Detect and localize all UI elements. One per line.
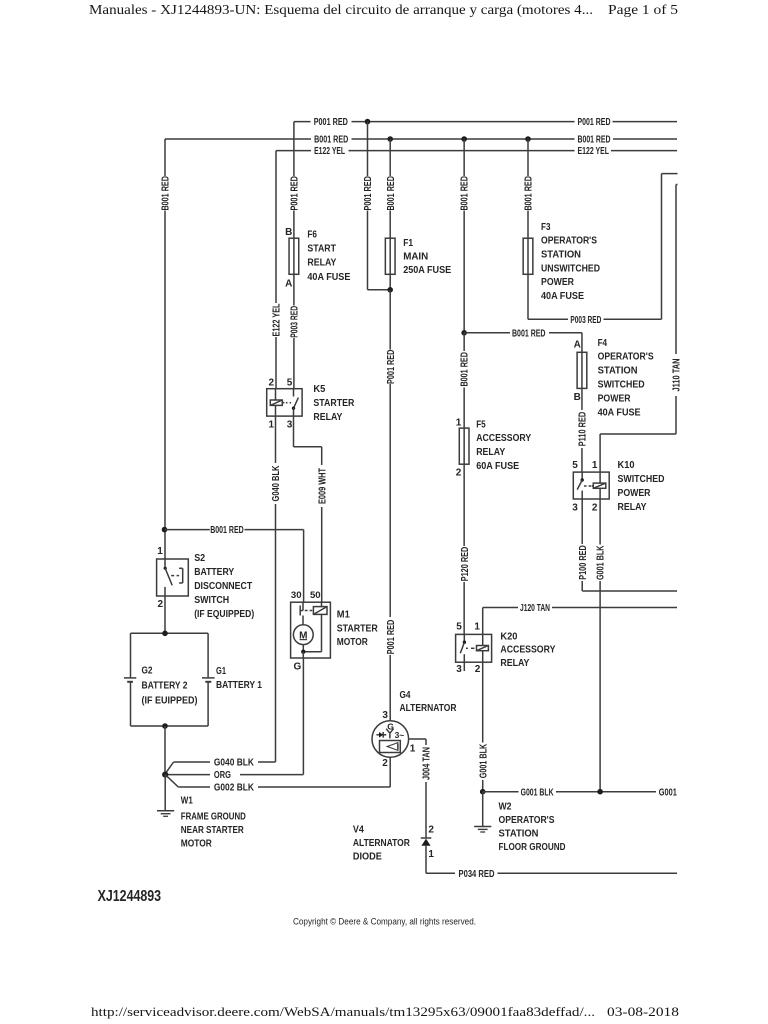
battery G2 symbol	[124, 677, 136, 679]
battery loop box	[131, 632, 209, 634]
wire G040 BLK from K5 pin 1 to frame ground junction	[275, 416, 277, 463]
svg-text:F5: F5	[476, 419, 486, 430]
svg-text:ACCESSORY: ACCESSORY	[476, 433, 531, 444]
svg-text:NEAR STARTER: NEAR STARTER	[181, 825, 244, 836]
svg-text:P003 RED: P003 RED	[570, 315, 601, 326]
svg-text:(IF EUIPPED): (IF EUIPPED)	[142, 695, 198, 706]
fuse F1 MAIN 250A FUSE	[385, 238, 395, 274]
wire P100 RED from K10 pin 3 to right edge	[581, 499, 583, 544]
G4 regulator symbol	[380, 741, 401, 753]
wire P001 RED long vertical to alternator	[389, 290, 391, 350]
svg-text:50: 50	[310, 590, 321, 601]
svg-text:P034 RED: P034 RED	[459, 869, 495, 880]
K20 pin 3 stub	[463, 662, 465, 671]
svg-text:G4: G4	[400, 690, 411, 701]
svg-text:B001 RED: B001 RED	[524, 176, 535, 211]
K10 switch contact	[581, 472, 583, 480]
battery G1 symbol	[202, 677, 215, 679]
M1 solenoid contact	[302, 602, 304, 610]
wire elbow into junction below F1	[368, 289, 391, 291]
svg-text:FRAME GROUND: FRAME GROUND	[181, 811, 246, 822]
svg-text:G002 BLK: G002 BLK	[214, 783, 255, 794]
svg-text:F3: F3	[541, 222, 551, 233]
svg-text:W1: W1	[181, 795, 193, 806]
wire G001 BLK from K20 pin 2 to floor ground	[482, 662, 484, 742]
svg-text:40A FUSE: 40A FUSE	[541, 291, 584, 302]
svg-text:2: 2	[269, 378, 275, 389]
wire B001 RED vertical to F1	[389, 139, 391, 176]
ground W1 FRAME GROUND NEAR STARTER MOTOR	[164, 775, 166, 811]
wire J004 TAN from alternator pin 1 to diode V4	[409, 738, 426, 740]
wire E009 WHT from K5 pin 3 to M1 pin 50	[293, 416, 295, 447]
svg-text:5: 5	[456, 622, 462, 633]
svg-text:MAIN: MAIN	[403, 252, 428, 263]
svg-text:G: G	[294, 661, 302, 672]
svg-text:B001 RED: B001 RED	[512, 328, 546, 339]
svg-text:BATTERY 1: BATTERY 1	[216, 680, 262, 691]
K20 relay coil	[477, 646, 489, 651]
svg-text:3: 3	[382, 710, 388, 721]
node junction P001 rail / P001 vertical	[365, 119, 371, 125]
svg-text:RELAY: RELAY	[313, 412, 342, 423]
svg-text:FLOOR GROUND: FLOOR GROUND	[499, 842, 566, 853]
relay K10 SWITCHED POWER RELAY	[573, 472, 609, 499]
svg-text:3: 3	[456, 664, 462, 675]
svg-text:RELAY: RELAY	[500, 658, 529, 669]
svg-text:40A FUSE: 40A FUSE	[307, 272, 350, 283]
svg-text:G040 BLK: G040 BLK	[271, 465, 282, 502]
svg-text:B001 RED: B001 RED	[460, 176, 471, 211]
svg-text:E122 YEL: E122 YEL	[578, 146, 610, 157]
svg-text:ALTERNATOR: ALTERNATOR	[400, 703, 457, 714]
wire E122 YEL top rail	[276, 150, 311, 152]
wire G001 BLK from K10 pin 2 down	[599, 499, 601, 545]
ground W2 OPERATORS STATION FLOOR GROUND	[482, 792, 484, 827]
wire B001 RED branch to F4	[464, 332, 510, 334]
wire P120 RED from F5 to K20 pin 5	[463, 464, 465, 546]
svg-text:30: 30	[291, 590, 302, 601]
node junction G001/K10 pin 2	[597, 789, 603, 795]
svg-text:RELAY: RELAY	[476, 447, 505, 458]
relay K20 ACCESSORY RELAY	[456, 634, 492, 662]
starter motor M1	[291, 602, 331, 658]
wire P001 RED vertical from rail	[367, 122, 369, 176]
svg-text:B001 RED: B001 RED	[460, 352, 471, 387]
svg-text:40A FUSE: 40A FUSE	[598, 407, 641, 418]
svg-text:POWER: POWER	[598, 393, 631, 404]
svg-text:P001 RED: P001 RED	[386, 620, 397, 655]
svg-text:B001 RED: B001 RED	[210, 525, 244, 536]
svg-text:BATTERY: BATTERY	[194, 567, 234, 578]
svg-text:2: 2	[592, 503, 598, 514]
svg-text:E122 YEL: E122 YEL	[272, 304, 283, 337]
svg-text:F6: F6	[307, 229, 317, 240]
svg-text:3: 3	[572, 503, 578, 514]
K5 switch contact	[293, 389, 295, 397]
svg-text:POWER: POWER	[618, 488, 651, 499]
svg-text:P001 RED: P001 RED	[578, 117, 611, 128]
relay K5 STARTER RELAY	[267, 389, 302, 416]
svg-text:1: 1	[410, 744, 416, 755]
wire E122 YEL vertical to K5 pin 2	[275, 151, 277, 303]
wire B001 RED branch to starter motor pin 30	[165, 529, 210, 531]
svg-text:START: START	[307, 244, 336, 255]
svg-text:B001 RED: B001 RED	[161, 176, 172, 211]
wire G002 BLK from frame ground junction to alternator pin 2	[165, 775, 178, 787]
svg-text:P110 RED: P110 RED	[578, 412, 589, 447]
wire P001 RED vertical to F6	[293, 122, 295, 176]
svg-text:G001 BLK: G001 BLK	[596, 545, 607, 580]
svg-text:OPERATOR'S: OPERATOR'S	[598, 352, 654, 363]
svg-text:SWITCH: SWITCH	[194, 595, 229, 606]
S2 switch contact and actuator	[164, 559, 166, 568]
svg-text:P003 RED: P003 RED	[290, 306, 301, 338]
svg-text:Manuales - XJ1244893-UN: Esque: Manuales - XJ1244893-UN: Esquema del cir…	[89, 2, 593, 17]
svg-text:K10: K10	[618, 460, 635, 471]
svg-text:A: A	[285, 279, 292, 290]
wire ORG from M1 pin G to frame ground junction	[302, 658, 304, 775]
svg-text:2: 2	[428, 824, 434, 835]
svg-text:MOTOR: MOTOR	[181, 839, 212, 850]
wire B001 RED vertical (accessory feed)	[463, 139, 465, 176]
svg-text:2: 2	[475, 664, 481, 675]
K5 relay coil	[270, 400, 282, 405]
svg-text:(IF EQUIPPED): (IF EQUIPPED)	[194, 609, 254, 620]
svg-text:3~: 3~	[395, 730, 405, 740]
svg-text:B: B	[285, 227, 292, 238]
svg-text:BATTERY 2: BATTERY 2	[142, 681, 188, 692]
svg-text:2: 2	[382, 758, 388, 769]
svg-text:V4: V4	[353, 824, 364, 835]
svg-text:G001 BLK: G001 BLK	[521, 787, 555, 798]
svg-text:P001 RED: P001 RED	[314, 117, 348, 128]
wire P034 RED from V4 to right edge	[425, 846, 427, 874]
svg-text:Page 1 of 5: Page 1 of 5	[608, 2, 678, 17]
svg-text:RELAY: RELAY	[618, 502, 647, 513]
wire G001 BLK horizontal	[483, 791, 519, 793]
svg-text:STATION: STATION	[499, 829, 539, 840]
svg-text:F1: F1	[403, 238, 413, 249]
svg-text:1: 1	[592, 460, 598, 471]
svg-text:ALTERNATOR: ALTERNATOR	[353, 838, 410, 849]
wire battery bottom to frame ground junction	[164, 726, 166, 775]
svg-text:POWER: POWER	[541, 277, 574, 288]
svg-text:1: 1	[456, 417, 462, 428]
node junction frame ground W1	[162, 772, 168, 778]
svg-text:B001 RED: B001 RED	[386, 176, 397, 211]
svg-text:1: 1	[474, 622, 480, 633]
svg-text:K20: K20	[500, 631, 517, 642]
K10 relay coil	[593, 483, 606, 488]
wire P001 RED top rail	[294, 121, 311, 123]
svg-text:60A FUSE: 60A FUSE	[476, 461, 519, 472]
svg-text:03-08-2018: 03-08-2018	[607, 1004, 679, 1019]
K20 switch contact	[463, 634, 465, 641]
node junction below F1	[389, 274, 391, 290]
svg-text:G1: G1	[216, 666, 226, 677]
svg-text:J004 TAN: J004 TAN	[422, 747, 433, 780]
wire P110 RED from F4 to K10 pin 5	[581, 388, 583, 410]
svg-text:F4: F4	[598, 338, 608, 349]
svg-text:G001 BLK: G001 BLK	[478, 743, 489, 778]
svg-text:DISCONNECT: DISCONNECT	[194, 581, 253, 592]
svg-text:MOTOR: MOTOR	[337, 637, 368, 648]
svg-text:P001 RED: P001 RED	[290, 176, 301, 211]
svg-text:J110 TAN: J110 TAN	[672, 359, 683, 392]
svg-text:1: 1	[428, 849, 434, 860]
svg-text:K5: K5	[313, 384, 325, 395]
svg-text:5: 5	[287, 378, 293, 389]
svg-text:P120 RED: P120 RED	[460, 547, 471, 582]
svg-text:B: B	[574, 392, 581, 403]
wire P003 RED from F3 to right edge	[527, 274, 529, 319]
svg-text:W2: W2	[499, 802, 512, 813]
svg-text:DIODE: DIODE	[353, 852, 382, 863]
node junction battery bottom	[162, 723, 168, 729]
svg-text:E009 WHT: E009 WHT	[317, 468, 328, 504]
svg-text:5: 5	[572, 460, 578, 471]
svg-text:J120 TAN: J120 TAN	[520, 603, 550, 614]
node junction B001/F4-branch	[461, 330, 467, 336]
svg-text:ORG: ORG	[214, 770, 231, 781]
svg-text:2: 2	[456, 467, 462, 478]
svg-text:http://serviceadvisor.deere.co: http://serviceadvisor.deere.com/WebSA/ma…	[91, 1004, 595, 1019]
svg-text:STATION: STATION	[541, 250, 581, 261]
svg-text:UNSWITCHED: UNSWITCHED	[541, 263, 600, 274]
svg-text:250A FUSE: 250A FUSE	[403, 265, 451, 276]
node junctions on B001 rail	[387, 136, 393, 142]
svg-text:G040 BLK: G040 BLK	[214, 758, 255, 769]
wire J120 TAN from K20 pin 1 to right edge	[482, 608, 484, 635]
svg-text:XJ1244893: XJ1244893	[98, 888, 162, 905]
svg-text:P001 RED: P001 RED	[363, 176, 374, 211]
wire J110 TAN from right edge	[676, 184, 678, 186]
svg-text:STARTER: STARTER	[337, 623, 378, 634]
G4 diode symbol	[376, 734, 386, 736]
svg-text:1: 1	[269, 419, 275, 430]
wire B001 RED top rail	[165, 138, 311, 140]
wire P003 RED from F6 to K5 pin 5	[293, 274, 295, 305]
node junction B001/S2-branch	[162, 527, 168, 533]
svg-text:B001 RED: B001 RED	[578, 135, 611, 146]
svg-text:E122 YEL: E122 YEL	[314, 146, 345, 157]
svg-text:SWITCHED: SWITCHED	[618, 474, 665, 485]
svg-text:STATION: STATION	[598, 366, 638, 377]
M1 solenoid coil	[313, 607, 327, 615]
fuse F3 OPERATORS STATION UNSWITCHED POWER 40A FUSE	[523, 238, 533, 274]
svg-text:RELAY: RELAY	[307, 258, 336, 269]
svg-text:1: 1	[157, 546, 163, 557]
svg-text:Copyright © Deere & Company, a: Copyright © Deere & Company, all rights …	[293, 917, 476, 927]
svg-text:ACCESSORY: ACCESSORY	[500, 645, 555, 656]
svg-text:B001 RED: B001 RED	[314, 135, 348, 146]
svg-text:P001 RED: P001 RED	[386, 350, 397, 385]
svg-text:OPERATOR'S: OPERATOR'S	[541, 236, 597, 247]
node junction battery top	[162, 631, 168, 637]
G4 three-phase star symbol	[386, 729, 390, 734]
wire B001 RED left vertical	[164, 139, 166, 176]
svg-text:M1: M1	[337, 610, 350, 621]
svg-text:A: A	[574, 340, 581, 351]
svg-text:OPERATOR'S: OPERATOR'S	[499, 815, 555, 826]
svg-text:3: 3	[287, 419, 293, 430]
svg-text:S2: S2	[194, 553, 205, 564]
svg-text:SWITCHED: SWITCHED	[598, 380, 645, 391]
switch S2 BATTERY DISCONNECT SWITCH	[157, 559, 189, 596]
wire from S2 pin 2 to battery	[164, 596, 166, 633]
svg-text:P100 RED: P100 RED	[578, 545, 589, 580]
svg-text:G2: G2	[142, 666, 153, 677]
node junction G001 at W2	[480, 789, 486, 795]
svg-text:2: 2	[158, 599, 164, 610]
node junction inside M1	[303, 651, 321, 653]
svg-text:STARTER: STARTER	[313, 398, 354, 409]
svg-text:G001: G001	[659, 787, 677, 798]
M1 motor symbol	[302, 616, 304, 625]
wire B001 RED vertical to F3	[527, 139, 529, 176]
